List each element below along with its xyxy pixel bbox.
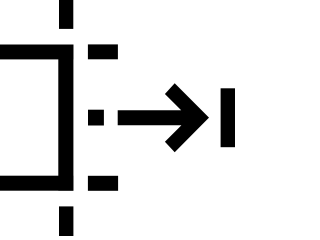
bracket bottom bar (0, 176, 73, 191)
arrow (shaft + chevron head) (118, 83, 209, 152)
dashed border: top vertical dash (59, 0, 73, 29)
dashed border: top-right horizontal dash (88, 44, 118, 59)
dashed border: middle square dash (88, 110, 104, 126)
right target bar (221, 88, 235, 147)
dashed border: bottom vertical dash (59, 206, 73, 238)
bracket top bar (0, 45, 73, 60)
dashed border: bottom-right horizontal dash (88, 176, 118, 191)
bracket right vertical (58, 45, 73, 191)
